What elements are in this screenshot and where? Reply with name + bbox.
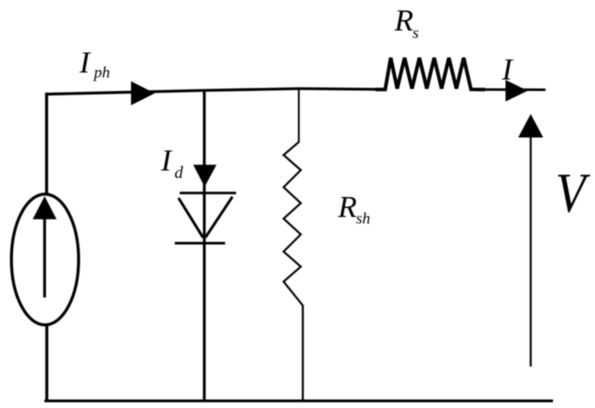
voltage arrowhead (up) (518, 114, 543, 138)
diode D triangle right side (205, 197, 232, 238)
resistor Rs zigzag (376, 58, 486, 90)
svg-text:I: I (160, 143, 173, 178)
resistor Rsh zigzag (284, 142, 303, 306)
diode D anode bar (180, 192, 236, 195)
wire top rail middle segment (diode node to Rsh node) (205, 89, 300, 91)
wire top rail left segment (node A to diode node) (46, 90, 206, 94)
wire diode branch vertical (203, 90, 206, 402)
arrowhead Iph current direction on top rail (131, 81, 155, 105)
voltage arrow V shaft (530, 136, 532, 367)
arrowhead I output current (right) (506, 80, 528, 102)
svg-text:d: d (175, 163, 184, 182)
svg-text:V: V (556, 163, 592, 225)
svg-text:s: s (413, 25, 419, 42)
wire bottom rail (44, 400, 553, 403)
current source arrow shaft (43, 217, 46, 298)
diode D cathode bar (175, 242, 225, 245)
wire left vertical (top corner to current source) (45, 93, 48, 195)
wire top rail right segment (Rsh node to Rs) (300, 87, 384, 91)
current source arrowhead (up) (33, 196, 57, 219)
svg-text:R: R (337, 189, 357, 224)
wire below current source (45, 325, 48, 402)
svg-text:I: I (79, 44, 92, 79)
svg-text:ph: ph (93, 64, 110, 81)
wire Rsh bottom stub (302, 305, 304, 401)
wire output to terminal (471, 88, 546, 91)
svg-text:I: I (501, 52, 514, 87)
diode D triangle left side (179, 198, 204, 238)
current source Iph ellipse (11, 194, 78, 325)
svg-text:R: R (394, 3, 414, 38)
wire Rsh top stub (298, 88, 300, 143)
svg-text:sh: sh (356, 210, 370, 227)
arrowhead Id current direction (down) (193, 165, 216, 187)
